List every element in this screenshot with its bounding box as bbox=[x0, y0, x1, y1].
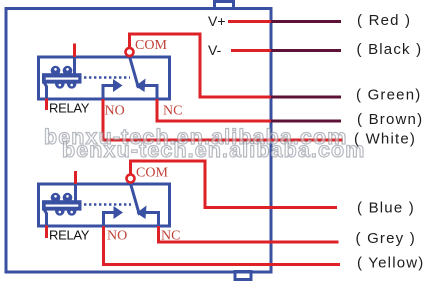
svg-text:RELAY: RELAY bbox=[49, 228, 90, 243]
svg-text:( Grey ): ( Grey ) bbox=[356, 230, 416, 247]
svg-text:V-: V- bbox=[208, 42, 222, 58]
svg-text:benxu-tech.en.alibaba.com: benxu-tech.en.alibaba.com bbox=[62, 138, 365, 162]
svg-text:RELAY: RELAY bbox=[49, 101, 90, 116]
svg-text:NC: NC bbox=[161, 229, 180, 244]
svg-text:( Red ): ( Red ) bbox=[357, 12, 411, 29]
svg-text:V+: V+ bbox=[208, 13, 226, 29]
svg-text:( White): ( White) bbox=[354, 131, 416, 148]
svg-text:NO: NO bbox=[105, 104, 125, 119]
svg-text:( Black ): ( Black ) bbox=[357, 41, 423, 58]
svg-text:COM: COM bbox=[135, 38, 167, 53]
svg-text:( Brown): ( Brown) bbox=[357, 111, 423, 128]
svg-text:( Green): ( Green) bbox=[356, 86, 421, 103]
svg-text:NC: NC bbox=[163, 104, 182, 119]
svg-text:( Yellow): ( Yellow) bbox=[357, 255, 425, 272]
svg-text:NO: NO bbox=[107, 229, 127, 244]
svg-text:COM: COM bbox=[136, 166, 168, 181]
svg-text:( Blue ): ( Blue ) bbox=[357, 199, 415, 216]
